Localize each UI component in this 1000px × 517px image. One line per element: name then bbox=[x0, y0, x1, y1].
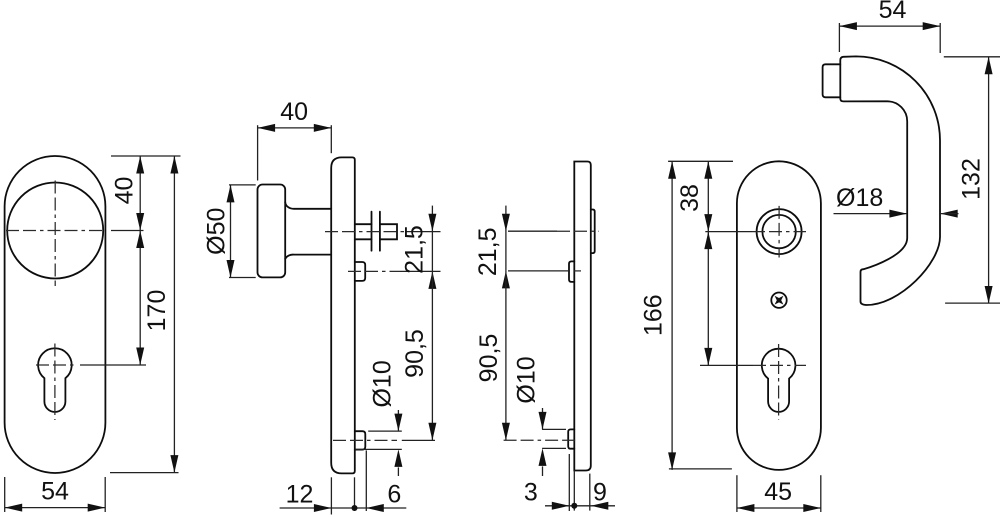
square spindle bbox=[355, 224, 397, 239]
spindle stub bbox=[823, 64, 841, 97]
plate outline (stadium 54x170) bbox=[5, 156, 106, 473]
spindle centerline bbox=[325, 231, 406, 233]
dimension 21,5 (spindle to lug) bbox=[431, 206, 433, 272]
plate outline (stadium 45x166) bbox=[737, 161, 821, 470]
svg-text:40: 40 bbox=[280, 98, 308, 126]
latch lug left bbox=[569, 261, 574, 282]
dimension 132 (handle height) bbox=[944, 56, 1000, 58]
hole centerline vertical bbox=[778, 206, 780, 258]
keyhole centerline horizontal bbox=[753, 364, 806, 366]
handle bearing ring outer bbox=[757, 209, 802, 254]
chain dimension knob center to keyhole center (unlabeled) bbox=[139, 231, 141, 366]
svg-text:54: 54 bbox=[879, 0, 907, 24]
lever handle outline bbox=[840, 56, 940, 305]
lever bearing strip bbox=[591, 210, 595, 254]
dimension 40 (knob projection) bbox=[257, 125, 259, 180]
spindle centerline bbox=[508, 230, 557, 232]
dimensions 3 and 9 (boss and plate thickness) bbox=[568, 454, 570, 511]
keyhole center extension line bbox=[80, 364, 146, 366]
dimension 21,5 bbox=[505, 206, 507, 271]
svg-text:Ø50: Ø50 bbox=[202, 208, 230, 255]
plate side profile bbox=[574, 162, 591, 471]
dimension 170 (plate height) bbox=[173, 156, 175, 473]
latch fixing lug bbox=[355, 262, 365, 281]
knob circle Ø50 bbox=[7, 183, 103, 279]
svg-text:21,5: 21,5 bbox=[400, 225, 428, 274]
svg-text:21,5: 21,5 bbox=[474, 227, 502, 276]
dimension 45 (plate width) bbox=[736, 475, 738, 512]
keyhole centerline vertical bbox=[54, 344, 56, 421]
svg-text:132: 132 bbox=[957, 158, 985, 200]
dimension Ø10 bbox=[542, 428, 566, 430]
svg-text:12: 12 bbox=[286, 481, 314, 509]
knob neck bottom fillet bbox=[285, 255, 331, 259]
dimension 54 (plate width) bbox=[4, 477, 6, 512]
svg-text:45: 45 bbox=[764, 478, 792, 506]
screw boss centerline bbox=[333, 439, 397, 441]
dimension 90,5 (lug to screw) bbox=[431, 271, 433, 440]
dimension 90,5 bbox=[505, 271, 507, 440]
screw boss left Ø10 bbox=[568, 429, 574, 448]
spindle tick marks bbox=[371, 212, 373, 251]
svg-text:9: 9 bbox=[593, 478, 607, 506]
plate side profile bbox=[331, 157, 355, 473]
keyhole centerline horizontal bbox=[36, 364, 75, 366]
dimension 54 (handle projection) bbox=[838, 23, 840, 52]
dimensions 12 and 6 (plate and screw thickness) bbox=[330, 477, 332, 514]
svg-text:Ø10: Ø10 bbox=[512, 356, 540, 403]
knob disc (Ø50 face) bbox=[258, 185, 286, 278]
lug centerline bbox=[348, 270, 400, 272]
dimension 40 (plate top to knob center) bbox=[111, 155, 181, 157]
svg-text:54: 54 bbox=[41, 478, 69, 506]
svg-text:Ø10: Ø10 bbox=[369, 360, 397, 407]
dimension 38 (plate top to handle center) bbox=[707, 161, 709, 231]
svg-text:38: 38 bbox=[676, 184, 704, 212]
svg-text:90,5: 90,5 bbox=[401, 329, 429, 378]
screw boss Ø10 bbox=[355, 431, 366, 449]
euro profile cylinder keyhole bbox=[38, 348, 72, 412]
phillips screw bbox=[771, 293, 786, 308]
svg-text:90,5: 90,5 bbox=[475, 334, 503, 383]
chain dimension handle center to cylinder center (unlabeled) bbox=[707, 232, 709, 366]
knob neck top fillet bbox=[285, 202, 331, 209]
cylinder center extension bbox=[700, 364, 753, 366]
keyhole centerline vertical bbox=[778, 344, 780, 420]
dimension Ø50 (knob diameter) bbox=[229, 184, 256, 186]
screw centerline bbox=[504, 439, 579, 441]
svg-text:166: 166 bbox=[640, 294, 668, 336]
handle center extension bbox=[705, 231, 752, 233]
knob centerline horizontal bbox=[6, 230, 104, 232]
svg-text:40: 40 bbox=[110, 177, 138, 205]
svg-text:Ø18: Ø18 bbox=[836, 184, 883, 212]
knob centerline vertical bbox=[54, 181, 56, 287]
euro profile keyhole bbox=[762, 349, 796, 412]
handle hole Ø18 bbox=[762, 215, 795, 248]
dimension Ø10 (screw boss) bbox=[368, 430, 402, 432]
dimension 166 (plate height) bbox=[668, 160, 733, 162]
svg-text:3: 3 bbox=[524, 478, 538, 506]
svg-text:6: 6 bbox=[387, 481, 401, 509]
lug centerline bbox=[508, 270, 569, 272]
svg-text:170: 170 bbox=[143, 290, 171, 332]
hole centerline horizontal bbox=[752, 231, 806, 233]
